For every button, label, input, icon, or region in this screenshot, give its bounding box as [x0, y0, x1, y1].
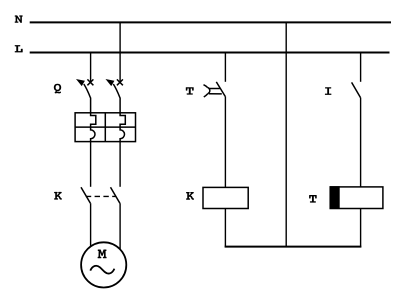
- wire N to Q pole 2: [119, 22, 121, 82]
- circuit breaker Q pole 1: [77, 79, 93, 113]
- AC sine symbol: [90, 266, 114, 274]
- label K contactor main contacts: [54, 192, 62, 200]
- circuit breaker Q pole 2: [107, 79, 123, 113]
- wire contact I to coil T: [360, 98, 362, 187]
- wire overload pole 2 to contact K2: [119, 142, 121, 187]
- switch contact I: [352, 82, 361, 97]
- wire L to contact T: [224, 53, 226, 82]
- wire coil T to bottom rail: [360, 209, 362, 247]
- motor M circle: [81, 242, 126, 287]
- heater element pole 2: [120, 113, 125, 142]
- label T timer contact: [186, 87, 194, 94]
- return wire to bus N: [285, 22, 287, 246]
- wire L to Q pole 1: [90, 53, 92, 83]
- wire contact T to coil K: [224, 97, 226, 188]
- net label L: [15, 45, 23, 52]
- timer coil T: [330, 186, 383, 209]
- thermal overload relay body: [75, 113, 135, 142]
- bus L: [30, 52, 390, 54]
- net label N: [15, 15, 23, 23]
- label T timer coil: [309, 195, 317, 203]
- label M: [98, 250, 107, 259]
- bottom rail: [225, 246, 362, 248]
- wire contact K1 to motor: [90, 203, 92, 247]
- wire contact K2 to motor: [119, 203, 121, 249]
- contactor K main contact 2: [111, 187, 120, 203]
- mechanical link dashed: [86, 195, 116, 197]
- wire coil K to bottom rail: [224, 209, 226, 247]
- label Q: [54, 84, 61, 94]
- contactor K main contact 1: [81, 187, 90, 203]
- heater element pole 1: [91, 113, 96, 142]
- contactor coil K: [203, 187, 248, 208]
- wire L to contact I: [360, 53, 362, 82]
- label K coil: [186, 192, 194, 200]
- wire overload pole 1 to contact K1: [90, 142, 92, 187]
- label I: [325, 87, 332, 95]
- timed contact T normally open: [204, 82, 226, 97]
- bus N: [30, 21, 391, 23]
